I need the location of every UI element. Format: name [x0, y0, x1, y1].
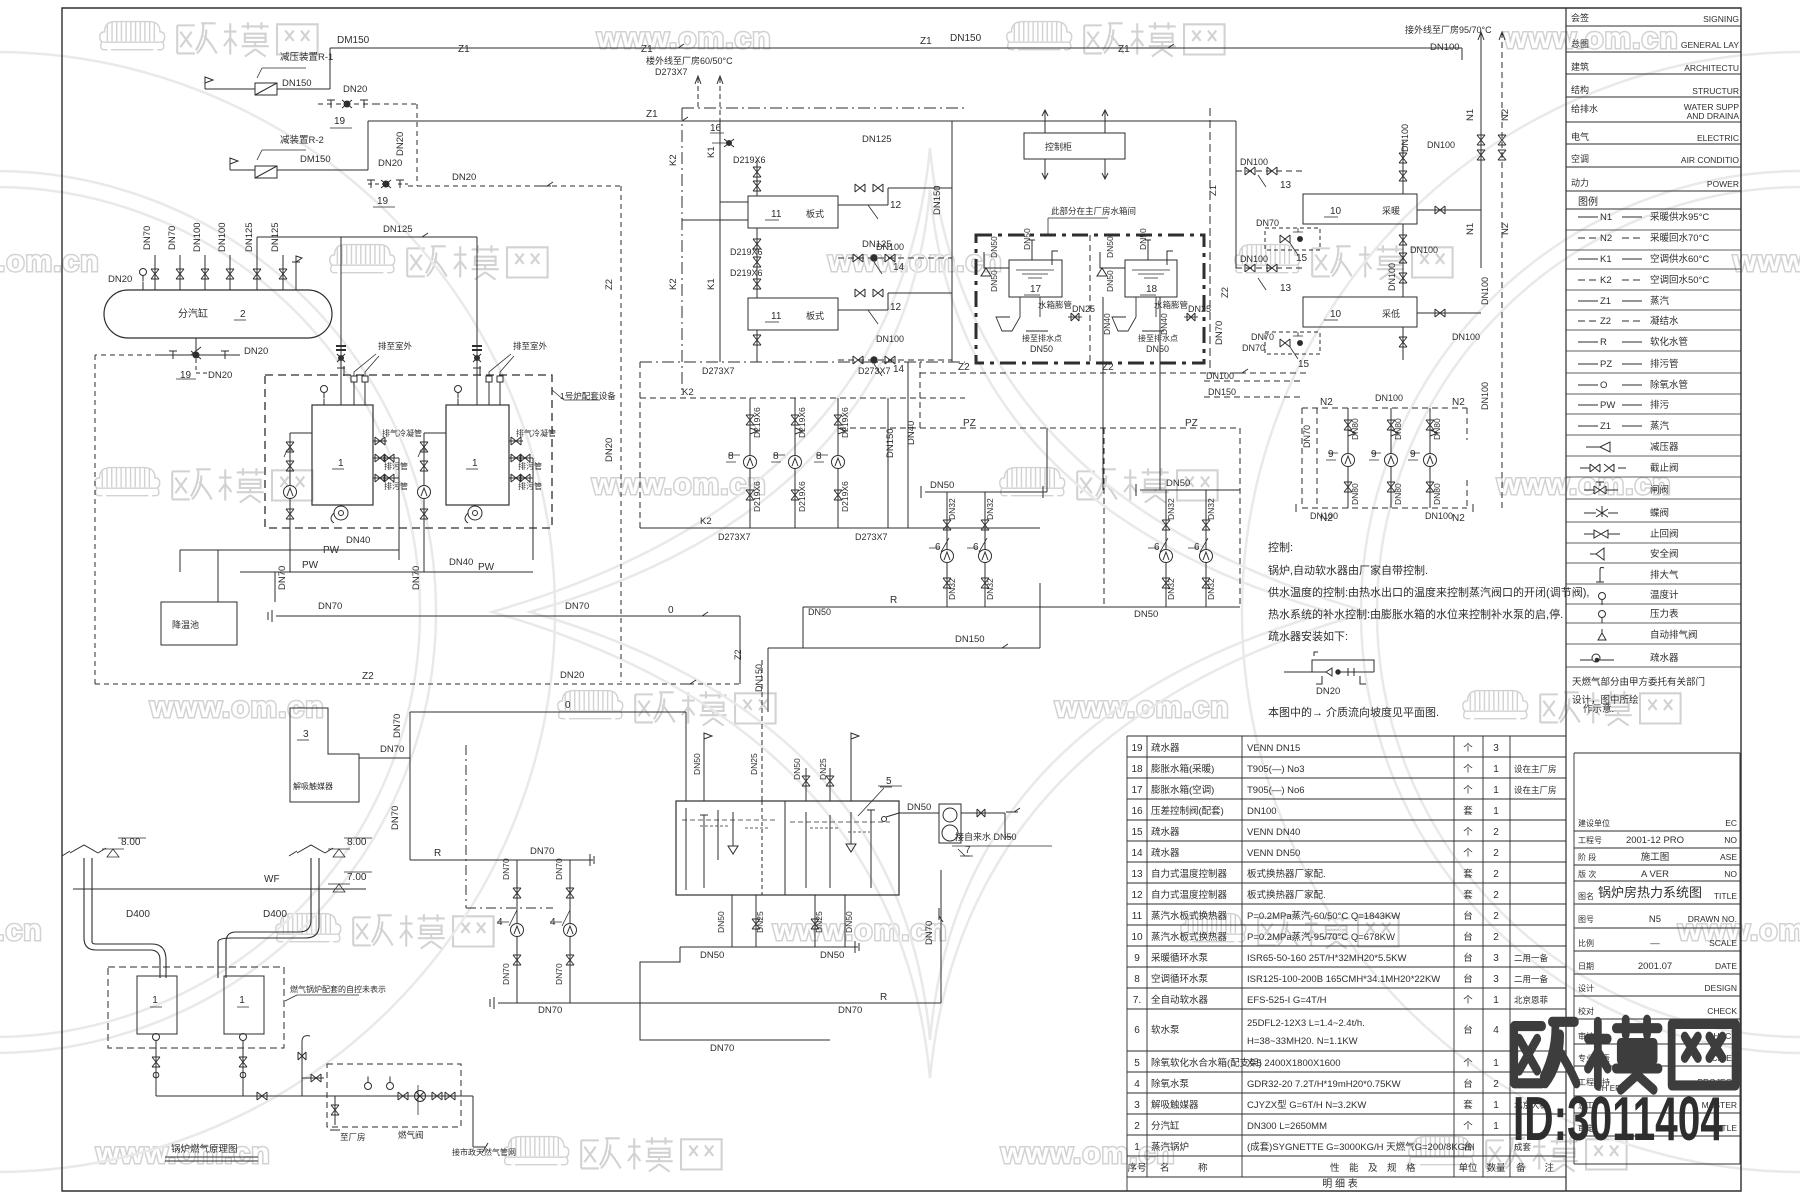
svg-text:本图中的→ 介质流向坡度见平面图.: 本图中的→ 介质流向坡度见平面图.	[1268, 705, 1439, 719]
heat exchanger 10b heating	[1303, 297, 1417, 327]
svg-text:15: 15	[1296, 253, 1308, 264]
svg-text:16: 16	[1131, 806, 1143, 817]
svg-text:11: 11	[771, 311, 782, 322]
svg-text:DN80: DN80	[1432, 483, 1442, 505]
svg-text:DN80: DN80	[1432, 418, 1442, 440]
svg-text:DN20: DN20	[560, 670, 584, 681]
svg-text:10: 10	[1131, 932, 1143, 943]
boiler steam risers	[340, 237, 342, 405]
boiler blowdown taps	[373, 441, 399, 560]
svg-text:25DFL2-12X3 L=1.4~2.4t/h.: 25DFL2-12X3 L=1.4~2.4t/h.	[1247, 1018, 1365, 1029]
svg-text:Z1: Z1	[641, 44, 653, 55]
svg-text:8: 8	[1134, 974, 1140, 985]
svg-text:蒸汽锅炉: 蒸汽锅炉	[1151, 1141, 1189, 1153]
svg-text:Z2: Z2	[604, 279, 615, 290]
svg-text:天燃气部分由甲方委托有关部门: 天燃气部分由甲方委托有关部门	[1572, 676, 1705, 688]
svg-text:ISR65-50-160 25T/H*32MH20*5.5K: ISR65-50-160 25T/H*32MH20*5.5KW	[1247, 953, 1407, 964]
svg-text:NO: NO	[1724, 869, 1737, 879]
tank17 piping	[981, 240, 1058, 276]
gas burners dashed box	[108, 967, 284, 1048]
svg-text:4: 4	[1493, 1025, 1499, 1036]
svg-text:DN50: DN50	[808, 607, 831, 617]
svg-text:VENN DN15: VENN DN15	[1247, 743, 1300, 754]
chimney 1	[84, 858, 166, 978]
svg-text:燃气阀: 燃气阀	[398, 1130, 424, 1140]
outdoor 60/50 risers	[697, 78, 699, 108]
svg-text:6: 6	[1194, 542, 1200, 553]
svg-text:—: —	[1650, 938, 1660, 949]
svg-text:台: 台	[1463, 910, 1473, 922]
svg-text:13: 13	[1131, 869, 1143, 880]
svg-text:台: 台	[1463, 1141, 1473, 1153]
svg-text:9: 9	[1410, 449, 1416, 460]
svg-text:PW: PW	[302, 560, 319, 571]
drain manifold DN50	[640, 941, 859, 978]
svg-text:接市政天然气管网: 接市政天然气管网	[452, 1147, 516, 1157]
svg-text:Z2: Z2	[362, 671, 374, 682]
svg-text:DN100: DN100	[192, 222, 203, 252]
svg-text:DN80: DN80	[1350, 418, 1360, 440]
pipe R to pumps 4	[410, 854, 594, 866]
svg-text:DN70: DN70	[710, 1043, 734, 1054]
svg-text:DN25: DN25	[749, 753, 759, 775]
svg-text:分汽缸: 分汽缸	[1151, 1120, 1180, 1132]
svg-text:K2: K2	[668, 154, 679, 166]
svg-text:DN150: DN150	[885, 428, 896, 458]
svg-text:DN150: DN150	[282, 78, 312, 89]
pipe PW blowdown lines	[180, 550, 533, 572]
svg-text:10: 10	[1330, 206, 1342, 217]
svg-text:自力式温度控制器: 自力式温度控制器	[1151, 868, 1228, 880]
gas principle title underline	[165, 1157, 258, 1161]
svg-text:DATE: DATE	[1715, 961, 1737, 971]
svg-text:空调: 空调	[1571, 153, 1589, 164]
deaerator feed pumps 4	[516, 860, 518, 1003]
svg-text:14: 14	[893, 364, 905, 375]
svg-text:个: 个	[1463, 827, 1473, 838]
svg-text:1: 1	[1493, 806, 1499, 817]
legend row separators	[1566, 230, 1741, 667]
svg-text:个: 个	[1463, 995, 1473, 1006]
svg-text:14: 14	[893, 262, 905, 273]
svg-text:DN70: DN70	[277, 566, 288, 590]
svg-text:DN20: DN20	[604, 438, 615, 462]
pipe K2 top boundary dash-dot	[682, 107, 965, 109]
svg-text:8.00: 8.00	[347, 837, 367, 848]
svg-text:接至排水点: 接至排水点	[1022, 333, 1062, 343]
tank drains	[732, 895, 845, 947]
svg-text:施工图: 施工图	[1641, 851, 1670, 863]
svg-text:日期: 日期	[1578, 962, 1594, 971]
svg-text:19: 19	[377, 196, 389, 207]
svg-text:水箱膨管: 水箱膨管	[1154, 300, 1188, 310]
svg-text:软水泵: 软水泵	[1151, 1024, 1180, 1036]
svg-text:18: 18	[1131, 764, 1143, 775]
svg-text:DN100: DN100	[1410, 245, 1438, 255]
pipe DN50 risers	[1046, 428, 1048, 492]
svg-text:DN40: DN40	[1159, 313, 1169, 335]
trap clusters 15	[1265, 228, 1320, 250]
svg-text:1: 1	[1493, 764, 1499, 775]
svg-text:STRUCTUR: STRUCTUR	[1692, 86, 1739, 96]
svg-text:DN32: DN32	[947, 578, 957, 600]
svg-text:2001-12 PRO: 2001-12 PRO	[1626, 835, 1684, 846]
svg-text:DN100: DN100	[1400, 124, 1410, 152]
tank 5 label leader	[858, 786, 902, 816]
pipe N2 riser dashed	[1501, 32, 1503, 508]
svg-text:除氧软化水合水箱(配支架): 除氧软化水合水箱(配支架)	[1151, 1057, 1262, 1069]
svg-text:DN32: DN32	[985, 498, 995, 520]
svg-text:11: 11	[771, 209, 782, 220]
control cabinet	[1024, 133, 1125, 159]
svg-text:供水温度的控制:由热水出口的温度来控制蒸汽阀口的开闭(调节阀: 供水温度的控制:由热水出口的温度来控制蒸汽阀口的开闭(调节阀),	[1268, 585, 1589, 599]
svg-text:压差控制阀(配套): 压差控制阀(配套)	[1151, 805, 1224, 817]
svg-text:Z2: Z2	[1600, 316, 1611, 327]
pipe DN150 down	[888, 362, 908, 528]
heat exchanger 11b	[748, 298, 838, 330]
svg-text:排污管: 排污管	[518, 481, 542, 491]
svg-text:单位: 单位	[1458, 1162, 1478, 1174]
svg-text:12: 12	[890, 302, 902, 313]
svg-text:台: 台	[1463, 931, 1473, 943]
svg-text:K1: K1	[1600, 254, 1612, 265]
svg-text:DN50: DN50	[1166, 478, 1190, 489]
svg-text:3: 3	[1493, 953, 1499, 964]
svg-text:ELECTRIC: ELECTRIC	[1697, 133, 1739, 143]
svg-text:DN80: DN80	[1350, 483, 1360, 505]
svg-text:3: 3	[1134, 1100, 1140, 1111]
svg-text:建设单位: 建设单位	[1578, 818, 1610, 828]
svg-text:5: 5	[886, 776, 892, 787]
svg-text:排污管: 排污管	[384, 461, 408, 471]
svg-text:台: 台	[1463, 973, 1473, 985]
svg-text:14: 14	[1131, 848, 1143, 859]
svg-text:NO: NO	[1724, 835, 1737, 845]
svg-text:DN25: DN25	[1188, 304, 1211, 314]
svg-text:2: 2	[1493, 911, 1499, 922]
pumps 8 AC circulation	[749, 398, 751, 528]
svg-text:2: 2	[1493, 848, 1499, 859]
svg-text:4: 4	[497, 917, 503, 928]
svg-text:1: 1	[239, 995, 245, 1006]
svg-text:DN50: DN50	[1105, 270, 1115, 292]
svg-text:DN100: DN100	[1430, 42, 1460, 53]
svg-text:建筑: 建筑	[1571, 61, 1589, 72]
svg-text:2001.07: 2001.07	[1638, 961, 1672, 972]
svg-text:SIGNING: SIGNING	[1703, 14, 1739, 24]
svg-text:除氧水管: 除氧水管	[1650, 379, 1688, 391]
pipe Z2 under tanks	[920, 372, 1310, 374]
svg-text:DN50: DN50	[989, 270, 999, 292]
svg-text:台: 台	[1463, 1078, 1473, 1090]
svg-text:DN125: DN125	[383, 224, 413, 235]
pipe DN150 soft water long line	[768, 583, 1040, 712]
svg-text:版 次: 版 次	[1578, 869, 1596, 879]
svg-text:Z1: Z1	[1600, 296, 1611, 307]
pipe DN70 connections of device3	[359, 712, 410, 860]
valve 16 pressure diff	[710, 133, 728, 143]
svg-text:3: 3	[303, 729, 309, 740]
svg-text:接自来水 DN50: 接自来水 DN50	[955, 831, 1017, 842]
svg-text:www.om.cn: www.om.cn	[0, 245, 100, 278]
svg-text:止回阀: 止回阀	[1650, 528, 1679, 540]
svg-text:6: 6	[1154, 542, 1160, 553]
svg-text:3: 3	[1493, 974, 1499, 985]
cooling pool	[161, 602, 237, 645]
svg-text:DN100: DN100	[1206, 371, 1234, 381]
svg-text:PW: PW	[478, 562, 495, 573]
svg-text:排气冷凝管: 排气冷凝管	[516, 428, 556, 438]
top Z1 header end	[1461, 48, 1463, 60]
gas train	[156, 1040, 243, 1096]
svg-text:DN100: DN100	[217, 222, 228, 252]
pipe DN70 between manifolds	[1316, 408, 1318, 508]
catalytic device 3	[290, 708, 359, 802]
svg-text:排污: 排污	[1650, 399, 1670, 411]
svg-text:DN50: DN50	[700, 950, 724, 961]
svg-text:17: 17	[1030, 284, 1042, 295]
svg-text:DN100: DN100	[876, 334, 904, 344]
svg-text:1: 1	[1493, 785, 1499, 796]
svg-text:6: 6	[1134, 1025, 1140, 1036]
pipe DN100/DN150 stubs right of tank box	[1204, 381, 1302, 397]
svg-text:DN50: DN50	[792, 758, 802, 780]
svg-text:热水系统的补水控制:由膨胀水箱的水位来控制补水泵的启,停.: 热水系统的补水控制:由膨胀水箱的水位来控制补水泵的启,停.	[1268, 607, 1563, 621]
feeds from Z1 header	[1235, 121, 1237, 268]
svg-text:12: 12	[1131, 890, 1143, 901]
svg-text:DN100: DN100	[1480, 382, 1490, 410]
svg-text:Z2: Z2	[1102, 362, 1114, 373]
tank internals	[686, 808, 738, 890]
future pump dash-dot	[466, 745, 553, 908]
svg-text:楼外线至厂房60/50°C: 楼外线至厂房60/50°C	[646, 55, 733, 66]
svg-text:蒸汽水板式换热器: 蒸汽水板式换热器	[1151, 931, 1228, 943]
svg-text:SCALE: SCALE	[1709, 938, 1737, 948]
svg-text:DN40: DN40	[449, 557, 473, 568]
svg-text:K2: K2	[1600, 275, 1612, 286]
svg-text:ARCHITECTU: ARCHITECTU	[1684, 63, 1739, 73]
burner unit 1a	[137, 976, 177, 1034]
lower K2 boundary dashed	[640, 361, 965, 363]
svg-text:15: 15	[1298, 359, 1310, 370]
svg-text:DN300 L=2650MM: DN300 L=2650MM	[1247, 1121, 1327, 1132]
svg-text:(成套)SYGNETTE G=3000KG/H 天燃气G=2: (成套)SYGNETTE G=3000KG/H 天燃气G=200/8KG/H	[1247, 1141, 1475, 1153]
svg-text:AND DRAINA: AND DRAINA	[1687, 111, 1740, 121]
svg-text:DN25: DN25	[814, 911, 824, 933]
heat exchanger 10a heating	[1303, 194, 1417, 224]
svg-text:排气冷凝管: 排气冷凝管	[382, 428, 422, 438]
pipe Z1 main steam header	[330, 47, 1462, 49]
svg-text:解吸触媒器: 解吸触媒器	[293, 781, 333, 791]
svg-text:作示意.: 作示意.	[1583, 703, 1614, 715]
svg-text:DN100: DN100	[1240, 157, 1268, 167]
svg-text:13: 13	[1280, 283, 1292, 294]
svg-text:D273X7: D273X7	[655, 67, 688, 77]
pipe DN70 from tank right	[940, 870, 942, 1003]
svg-text:DN125: DN125	[270, 222, 281, 252]
svg-text:R: R	[1600, 337, 1607, 348]
svg-text:D273X7: D273X7	[858, 366, 891, 376]
svg-text:POWER: POWER	[1707, 179, 1739, 189]
svg-text:DN150: DN150	[950, 33, 982, 44]
svg-text:DN150: DN150	[1208, 387, 1236, 397]
title column divider	[1565, 8, 1567, 1191]
svg-text:采暖供水95°C: 采暖供水95°C	[1650, 211, 1709, 223]
svg-text:R: R	[880, 992, 887, 1003]
svg-text:1号炉配套设备: 1号炉配套设备	[560, 391, 616, 401]
heat exchanger 11a	[748, 196, 838, 228]
svg-text:设在主厂房: 设在主厂房	[1514, 764, 1557, 774]
svg-text:DN50: DN50	[1138, 228, 1148, 250]
bypass 19 under R-1	[318, 104, 417, 186]
svg-text:19: 19	[1131, 743, 1143, 754]
svg-text:会签: 会签	[1571, 12, 1589, 23]
burner unit 1b	[224, 976, 264, 1034]
svg-text:数量: 数量	[1486, 1162, 1506, 1174]
pipe Z1 second header	[368, 120, 1236, 122]
svg-text:10: 10	[1330, 309, 1342, 320]
svg-text:校对: 校对	[1578, 1006, 1594, 1016]
svg-text:DN50: DN50	[907, 802, 931, 813]
svg-text:D219X6: D219X6	[752, 407, 762, 438]
level 7.00 WF line	[73, 888, 366, 890]
svg-text:DN70: DN70	[838, 1005, 862, 1016]
svg-text:www.om.cn: www.om.cn	[1496, 468, 1672, 501]
svg-text:压力表: 压力表	[1650, 608, 1679, 620]
svg-text:17: 17	[1131, 785, 1143, 796]
svg-text:套: 套	[1463, 868, 1473, 880]
svg-text:1: 1	[472, 458, 478, 469]
svg-text:DN100: DN100	[1247, 806, 1277, 817]
svg-text:DN70: DN70	[501, 963, 511, 985]
svg-text:自力式温度控制器: 自力式温度控制器	[1151, 889, 1228, 901]
svg-text:DN70: DN70	[411, 566, 422, 590]
svg-text:二用一备: 二用一备	[1514, 953, 1549, 963]
svg-text:个: 个	[1463, 1121, 1473, 1132]
svg-text:DN70: DN70	[318, 601, 342, 612]
svg-text:套: 套	[1463, 805, 1473, 817]
svg-text:A VER: A VER	[1641, 869, 1669, 880]
svg-text:7.00: 7.00	[347, 872, 367, 883]
svg-text:Z1: Z1	[1118, 44, 1130, 55]
svg-text:2: 2	[1493, 869, 1499, 880]
boiler 1b	[446, 405, 509, 505]
svg-text:DN50: DN50	[1134, 609, 1158, 620]
steam trap install diagram	[1284, 652, 1374, 684]
svg-text:DN150: DN150	[932, 185, 943, 215]
svg-text:DN100: DN100	[1375, 393, 1403, 403]
svg-text:Z2: Z2	[1220, 287, 1231, 298]
control notes text	[1268, 540, 1589, 719]
svg-text:图名: 图名	[1578, 891, 1594, 901]
svg-text:个: 个	[1463, 764, 1473, 775]
svg-text:DN150: DN150	[754, 664, 764, 692]
svg-text:板式: 板式	[806, 310, 824, 321]
pipe DN20 condensate dashed	[408, 186, 621, 682]
svg-text:采暖: 采暖	[1382, 205, 1400, 216]
svg-text:图例: 图例	[1578, 195, 1598, 208]
svg-text:DN70: DN70	[924, 921, 935, 945]
svg-text:N1: N1	[1465, 109, 1476, 121]
svg-text:解吸触媒器: 解吸触媒器	[1151, 1099, 1199, 1111]
pipe R line to softwater pumps	[803, 606, 1240, 608]
svg-text:蝶阀: 蝶阀	[1650, 507, 1669, 519]
svg-text:软化水管: 软化水管	[1650, 336, 1688, 348]
svg-text:DN125: DN125	[244, 222, 255, 252]
condensate DN100 with trap 14	[838, 258, 952, 360]
svg-text:控制柜: 控制柜	[1045, 141, 1072, 152]
svg-text:全自动软水器: 全自动软水器	[1151, 994, 1209, 1006]
svg-text:膨胀水箱(采暖): 膨胀水箱(采暖)	[1151, 763, 1214, 775]
svg-text:DN40: DN40	[906, 421, 917, 445]
svg-text:15: 15	[1131, 827, 1143, 838]
svg-text:D219X6: D219X6	[840, 481, 850, 512]
svg-text:采暖回水70°C: 采暖回水70°C	[1650, 232, 1709, 244]
svg-text:T905(—) No6: T905(—) No6	[1247, 785, 1305, 796]
pumps 6 group A	[921, 486, 1047, 498]
svg-text:DN150: DN150	[955, 634, 985, 645]
svg-text:8: 8	[773, 451, 779, 462]
svg-text:燃气锅炉配套的自控未表示: 燃气锅炉配套的自控未表示	[290, 984, 386, 994]
svg-text:个: 个	[1463, 1058, 1473, 1069]
svg-text:N2: N2	[1500, 109, 1511, 121]
svg-text:DN70: DN70	[1302, 425, 1312, 448]
svg-text:4: 4	[1134, 1079, 1140, 1090]
svg-text:接外线至厂房95/70°C: 接外线至厂房95/70°C	[1405, 24, 1492, 35]
svg-text:个: 个	[1463, 848, 1473, 859]
svg-text:PZ: PZ	[1185, 418, 1198, 429]
svg-text:8: 8	[728, 451, 734, 462]
svg-text:AIR CONDITIO: AIR CONDITIO	[1681, 155, 1739, 165]
pipe R dashed riser from softener	[1040, 583, 1100, 648]
svg-text:个: 个	[1463, 785, 1473, 796]
svg-text:6: 6	[935, 542, 941, 553]
svg-text:DN20: DN20	[1316, 686, 1340, 697]
pumps 6 group B	[1136, 484, 1240, 496]
pipe O deaerated water line	[268, 610, 740, 622]
svg-text:接至排水点: 接至排水点	[1138, 333, 1178, 343]
svg-text:DN32: DN32	[947, 498, 957, 520]
svg-text:DN50: DN50	[1030, 344, 1053, 354]
svg-text:DN70: DN70	[1214, 321, 1225, 345]
reducer R-1	[205, 77, 213, 89]
svg-text:DN20: DN20	[108, 274, 132, 285]
softener 7	[939, 804, 961, 843]
svg-text:闸阀: 闸阀	[1650, 484, 1669, 496]
boiler 1a	[312, 405, 373, 505]
svg-text:9: 9	[1371, 449, 1377, 460]
svg-text:9: 9	[1134, 953, 1140, 964]
svg-text:DN50: DN50	[716, 911, 726, 933]
svg-text:9: 9	[1328, 449, 1334, 460]
pipe Z1 riser right of tanks	[1209, 108, 1211, 373]
svg-text:凝结水: 凝结水	[1650, 315, 1679, 327]
pipe Z2 condensate dashed long	[95, 683, 740, 685]
svg-text:0: 0	[668, 605, 674, 616]
svg-text:16: 16	[710, 123, 722, 134]
svg-text:N2: N2	[1600, 233, 1612, 244]
svg-text:水箱膨管: 水箱膨管	[1038, 300, 1072, 310]
svg-text:降温池: 降温池	[172, 619, 199, 630]
svg-text:GENERAL LAY: GENERAL LAY	[1681, 40, 1739, 50]
svg-text:动力: 动力	[1571, 177, 1589, 188]
svg-text:www.om.cn: www.om.cn	[1054, 691, 1230, 724]
svg-text:总图: 总图	[1571, 38, 1589, 49]
pipe N1 riser	[1480, 32, 1482, 268]
boiler burners	[334, 506, 348, 520]
drum top risers with valves	[154, 255, 156, 290]
pipe N2 pump manifolds	[1302, 408, 1467, 508]
